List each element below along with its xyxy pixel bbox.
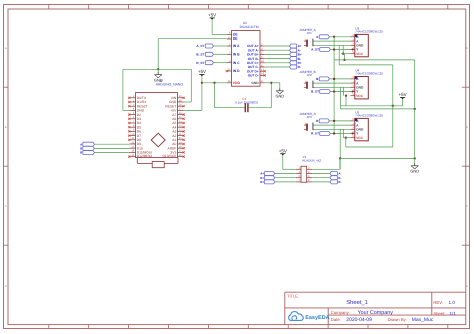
U5 pin 3 GND (351, 128, 355, 130)
wire A_ST to U2 (213, 45, 226, 47)
svg-text:GND: GND (410, 169, 419, 174)
wire U4 VCC drop to +5V rail (345, 96, 347, 106)
U1 pin 22 A3 (right) (178, 130, 184, 132)
U1 pin 7 D4 (left) (129, 122, 135, 124)
U1 pin 20 A1 (right) (178, 139, 184, 141)
svg-text:Your Company: Your Company (358, 310, 394, 316)
wire jumperR pin2 drop (342, 129, 344, 137)
wire jumperA pin2 drop to VCC row (342, 45, 344, 53)
node R junction (333, 120, 335, 122)
U3 pin 3 GND (351, 44, 355, 46)
U1 pin 15 D12/MISO (left) (129, 156, 135, 158)
U1 pin 30 VIN (right) (178, 97, 184, 99)
U1 pin 6 D3 (left) (129, 118, 135, 120)
net flag B+ (290, 52, 297, 56)
svg-text:VCC: VCC (356, 136, 364, 140)
svg-text:B: B (5, 126, 7, 129)
U2 pin 10 OUT C+ (right) (260, 62, 265, 64)
svg-text:JP3: JP3 (307, 115, 313, 119)
svg-text:D13/SCK: D13/SCK (163, 154, 178, 158)
wire horizontal h1 (334, 59, 415, 61)
wire U2 output A+ (265, 45, 290, 47)
wire jumper pin2 / gate GND row (315, 86, 351, 88)
wire U2 GND pin to ground (265, 82, 280, 84)
wire U2 output R- (265, 66, 290, 68)
svg-text:R_ST: R_ST (196, 61, 204, 65)
U1 pin 2 D1/RX (left) (129, 101, 135, 103)
wire net B to U pin B (329, 78, 350, 80)
svg-text:Company:: Company: (331, 310, 350, 315)
U3 pin 4 Y (351, 49, 355, 51)
svg-text:B: B (466, 126, 468, 129)
U1 pin 26 A7 (right) (178, 114, 184, 116)
wire jumper pin2 / gate GND row (315, 44, 351, 46)
jumper JP1 symbol (304, 40, 306, 42)
svg-text:GND: GND (275, 94, 284, 99)
node B_ST junction (333, 90, 335, 92)
U4 pin 2 B (351, 78, 355, 80)
P1 pin 8 (right) (307, 181, 313, 183)
svg-text:JP2: JP2 (307, 73, 313, 77)
mcu U1 ARDUINO_NANO body (136, 93, 178, 158)
U2 unconnected pin crosses (226, 70, 228, 72)
node B_ST / Y pin junction (352, 91, 354, 93)
node GND junction (157, 68, 159, 70)
wire U3 GND drop (338, 45, 340, 65)
U5 pin 4 Y (351, 133, 355, 135)
connector P1 HEADER_4x2 body (301, 166, 307, 182)
svg-text:Max_Muc: Max_Muc (412, 317, 434, 323)
wire U2 output A- (265, 49, 290, 51)
wire U3 VCC drop (344, 54, 346, 60)
svg-text:OE: OE (233, 33, 239, 37)
P1 pin 5 (left) (296, 177, 301, 179)
U4 pin 3 GND (351, 86, 355, 88)
U2 pin 16 VDD (left) (227, 82, 232, 84)
wire U5 GND drop (339, 129, 341, 169)
U5 pin 5 VCC (351, 137, 355, 139)
wire GND loop left to U1 GND pin 4 (123, 68, 158, 70)
node C1 branch junction (213, 82, 215, 84)
svg-text:+5V: +5V (399, 92, 407, 97)
svg-text:IN D: IN D (233, 69, 240, 73)
P1 pin 1 (left) (296, 168, 301, 170)
U1 logo diamond (151, 133, 165, 147)
wire +5V lead (402, 99, 404, 105)
P1 pin 6 (right) (307, 177, 313, 179)
net flag A+ (290, 44, 297, 48)
node +5V/VDD junction (201, 82, 203, 84)
svg-text:A: A (466, 47, 468, 50)
wire +5V down to VDD rail (201, 76, 203, 82)
U1 pin 13 D10 (left) (129, 147, 135, 149)
svg-text:B_ST: B_ST (311, 90, 319, 94)
EasyEDA logo cloud (289, 312, 304, 321)
svg-text:IN B: IN B (233, 53, 240, 57)
net flag B- (290, 57, 297, 61)
U1 pin 23 A4 (right) (178, 126, 184, 128)
U2 pin 1 IN A (left) (227, 45, 232, 47)
wire P1 to A- (312, 173, 330, 175)
U1 pin 4 GND (left) (129, 109, 135, 111)
svg-text:R+: R+ (260, 180, 264, 184)
svg-text:D12/MISO: D12/MISO (137, 154, 153, 158)
wire U2 output B- (265, 58, 290, 60)
wire U5 VCC drop (345, 138, 347, 147)
U3 pin 1 A (351, 40, 355, 42)
net flag R+ (290, 61, 297, 65)
wire horizontal h5 (346, 146, 393, 148)
wire A+ to P1 (275, 173, 296, 175)
U1 pin 8 D5 (left) (129, 126, 135, 128)
U1 pin 12 D9 (left) (129, 143, 135, 145)
P1 pin 3 (left) (296, 173, 301, 175)
node GND rail right junction (414, 157, 416, 159)
node B junction (333, 78, 335, 80)
wire P1 pin 2 to GND rail (312, 168, 340, 170)
svg-text:VDD: VDD (233, 81, 241, 85)
wire +5V rail to U2 VDD (202, 82, 227, 84)
wire GND rail h6 (340, 157, 415, 159)
U2 pin 11 OUT C- (right) (260, 66, 265, 68)
wire GND loop right to U1 GND pin 29 (158, 68, 191, 70)
node +5V rail / v6 junction (392, 105, 394, 107)
svg-text:D: D (466, 285, 468, 288)
wire net column v1 (333, 37, 335, 134)
U3 pin 5 VCC (351, 53, 355, 55)
node R junction (333, 120, 335, 122)
wire B_ST to gate Y (330, 91, 350, 93)
wire vertical v7 (414, 60, 416, 163)
svg-text:C: C (466, 205, 468, 208)
wire U3 VCC stub (341, 53, 351, 55)
P1 pin 2 (right) (307, 168, 313, 170)
U1 pin 10 D7 (left) (129, 135, 135, 137)
wire jumper pin1 to gate A (315, 40, 351, 42)
wire +5V down to U1 +5V pin 27 (201, 83, 203, 111)
U4 pin 1 A (351, 82, 355, 84)
node R_ST junction (333, 132, 335, 134)
svg-text:TITLE:: TITLE: (287, 294, 299, 299)
svg-text:+5V: +5V (198, 69, 206, 74)
svg-text:74AHC1G08GW,125: 74AHC1G08GW,125 (355, 29, 383, 33)
svg-text:74AHC1G08GW,125: 74AHC1G08GW,125 (355, 72, 383, 76)
svg-text:Sheet:: Sheet: (433, 311, 445, 316)
svg-text:R-: R- (338, 180, 341, 184)
wire R_ST to U2 (213, 62, 226, 64)
svg-text:1.0: 1.0 (449, 300, 456, 305)
wire B_ST to U2 (213, 53, 226, 55)
U1 pin 11 D8 (left) (129, 139, 135, 141)
wire B+ to P1 (275, 177, 296, 179)
jumper JP2 symbol (304, 82, 306, 84)
U1 pin 18 AREF (right) (178, 147, 184, 149)
svg-text:HEADER_4x2: HEADER_4x2 (302, 158, 321, 162)
U1 pin 17 3V3 (right) (178, 151, 184, 153)
svg-text:VCC: VCC (356, 94, 364, 98)
wire R+ to P1 (275, 181, 296, 183)
U1 pin 25 A6 (right) (178, 118, 184, 120)
svg-text:C: C (5, 205, 7, 208)
capacitor C1 (244, 103, 246, 112)
node A_ST / Y pin junction (352, 49, 354, 51)
svg-text:R_ST: R_ST (311, 132, 319, 136)
U2 pin 5 OUT B+ (right) (260, 53, 265, 55)
U1 pin 1 D0/TX (left) (129, 97, 135, 99)
U3 pin 2 B (351, 36, 355, 38)
U2 pin 14 OUT D- (right) (260, 74, 265, 76)
wire GND net to U2 /OE (158, 38, 227, 40)
wire A_ST to gate Y (330, 49, 350, 51)
svg-text:0.1uF 25V(0603): 0.1uF 25V(0603) (235, 100, 258, 104)
svg-text:Date:: Date: (331, 317, 341, 322)
net flag R- (header right) (330, 180, 338, 184)
U5 pin 2 B (351, 120, 355, 122)
wire jumper pin2 / gate GND row (315, 128, 351, 130)
wire R to U1 (94, 152, 129, 154)
U2 pin 12 OE (left) (227, 38, 232, 40)
node GND rail left junction (339, 157, 341, 159)
U2 pin 15 IN D (left) (227, 70, 232, 72)
title block outline (285, 292, 466, 324)
jumper JP3 symbol (304, 124, 306, 126)
U5 pin 1 A (351, 124, 355, 126)
U1 pin 28 RESET (right) (178, 105, 184, 107)
node U4 VCC junction (345, 95, 347, 97)
ic U5 74AHC1G08 body (355, 118, 369, 140)
svg-text:ARDUINO_NANO: ARDUINO_NANO (156, 83, 184, 87)
U1 pin 29 GND (right) (178, 101, 184, 103)
wire net R to U pin B (329, 120, 350, 122)
svg-text:Sheet_1: Sheet_1 (346, 299, 368, 306)
wire horizontal h4 (341, 108, 415, 110)
U4 pin 5 VCC (351, 95, 355, 97)
U2 pin 6 OUT B- (right) (260, 58, 265, 60)
P1 pin 7 (left) (296, 181, 301, 183)
wire C1 right branch (249, 107, 272, 109)
U1 pin 5 D2 (left) (129, 114, 135, 116)
svg-text:VCC: VCC (356, 52, 364, 56)
U1 pin 3 RESET (left) (129, 105, 135, 107)
svg-text:74AHC1G08GW,125: 74AHC1G08GW,125 (355, 113, 383, 117)
net flag B- (header right) (330, 176, 338, 180)
svg-text:+5V: +5V (208, 13, 216, 18)
wire jumperB pin2 drop (342, 87, 344, 95)
net flag A- (290, 48, 297, 52)
svg-text:R-: R- (298, 65, 301, 69)
node A_ST junction (333, 48, 335, 50)
wire jumper pin1 to gate A (315, 82, 351, 84)
U1 pin 27 +5V (right) (178, 109, 184, 111)
wire P1 to B- (312, 177, 330, 179)
U1 pin 19 A0 (right) (178, 143, 184, 145)
svg-text:+5V: +5V (279, 148, 287, 153)
svg-text:OUT D-: OUT D- (248, 74, 259, 78)
svg-text:IN A: IN A (233, 44, 240, 48)
wire B to U1 (94, 147, 129, 149)
node U3 VCC junction (342, 53, 344, 55)
U2 pin 3 OUT A- (right) (260, 49, 265, 51)
U2 pin 7 IN B (left) (227, 53, 232, 55)
svg-text:D: D (5, 285, 7, 288)
svg-text:GND: GND (251, 81, 259, 85)
svg-text:OE: OE (233, 37, 239, 41)
node U5 VCC junction (345, 137, 347, 139)
net flag R- (290, 65, 297, 69)
node h4/v7 junction (414, 108, 416, 110)
svg-text:Drawn By:: Drawn By: (388, 317, 407, 322)
wire +5V rail h3 (341, 105, 403, 107)
U1 pin 16 D13/SCK (right) (178, 156, 184, 158)
wire vertical v6 (392, 65, 394, 147)
wire U2 output R+ (265, 62, 290, 64)
svg-text:IN C: IN C (233, 61, 240, 65)
U1 pin 24 A5 (right) (178, 122, 184, 124)
node B junction (333, 78, 335, 80)
wire P1 to R- (312, 181, 330, 183)
svg-text:2020-04-09: 2020-04-09 (346, 317, 372, 323)
ground symbol GND (right) (414, 163, 416, 166)
wire C1 left branch (214, 83, 216, 108)
U2 pin 13 OUT D+ (right) (260, 70, 265, 72)
svg-text:A_ST: A_ST (311, 48, 319, 52)
svg-text:EasyEDA: EasyEDA (305, 315, 329, 321)
svg-text:REV:: REV: (433, 300, 443, 305)
U2 pin 2 OUT A+ (right) (260, 45, 265, 47)
ground symbol GND (above U1) (157, 69, 159, 72)
ic U4 74AHC1G08 body (355, 77, 369, 99)
ic U3 74AHC1G08 body (355, 34, 369, 56)
wire +5V to U2 OE (211, 20, 213, 35)
wire horizontal h2 (339, 64, 393, 66)
net flag A- (header right) (330, 172, 338, 176)
svg-text:1/1: 1/1 (450, 311, 457, 316)
U1 pin 14 D11/MOSI (left) (129, 151, 135, 153)
P1 pin 4 (right) (307, 173, 313, 175)
svg-text:A_ST: A_ST (196, 44, 204, 48)
wire +5V to P1 pin 1 (282, 156, 284, 170)
node on +5V feed line (343, 59, 345, 61)
svg-text:B_ST: B_ST (196, 53, 204, 57)
wire R_ST to gate Y (330, 133, 350, 135)
wire U4 GND drop (340, 87, 342, 109)
svg-text:JP1: JP1 (307, 31, 313, 35)
wire U5 VCC stub (343, 137, 350, 139)
svg-text:A: A (5, 47, 7, 50)
node U2 GND junction (270, 82, 272, 84)
U2 pin 9 IN C (left) (227, 62, 232, 64)
U1 usb connector outline (136, 158, 138, 164)
wire net A to U pin B (329, 36, 350, 38)
wire jumper pin1 to gate A (315, 124, 351, 126)
node R_ST / Y pin junction (352, 133, 354, 135)
U4 pin 4 Y (351, 91, 355, 93)
wire U2 output B+ (265, 53, 290, 55)
ic U2 DS26C31TM body (232, 31, 261, 87)
node A junction (333, 36, 335, 38)
ground symbol GND (right of C1) (279, 88, 281, 91)
U1 pin 21 A2 (right) (178, 135, 184, 137)
U1 pin 9 D6 (left) (129, 130, 135, 132)
U2 pin 8 GND (right) (260, 82, 265, 84)
U2 pin 4 OE (left) (227, 33, 232, 35)
svg-text:DS26C31TM: DS26C31TM (240, 25, 259, 29)
svg-text:GND: GND (154, 77, 163, 82)
wire A to U1 (94, 143, 129, 145)
